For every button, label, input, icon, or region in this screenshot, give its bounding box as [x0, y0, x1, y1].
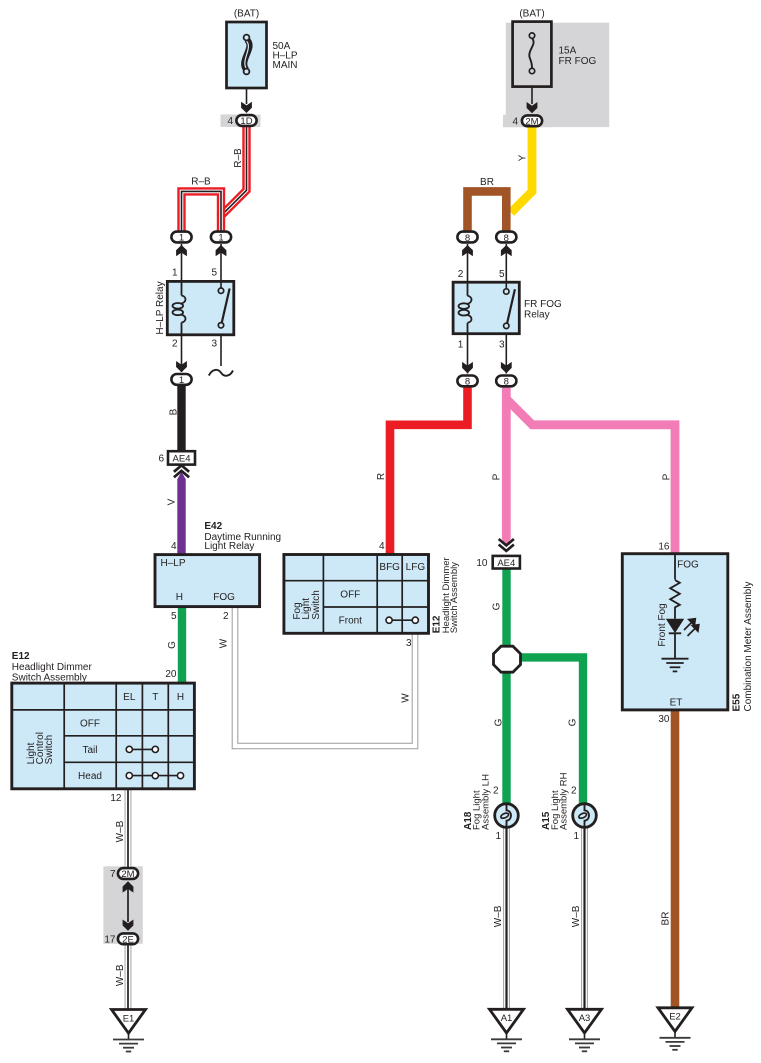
svg-text:12: 12 [110, 793, 122, 804]
svg-text:5: 5 [211, 268, 217, 279]
svg-text:3: 3 [499, 340, 505, 351]
svg-text:(BAT): (BAT) [234, 9, 259, 20]
svg-text:A3: A3 [579, 1013, 591, 1024]
svg-text:1: 1 [179, 375, 184, 386]
svg-text:G: G [491, 602, 502, 610]
svg-text:W–B: W–B [571, 905, 582, 927]
svg-text:H–LP: H–LP [161, 558, 186, 569]
svg-text:1: 1 [458, 340, 464, 351]
svg-text:Combination Meter Assembly: Combination Meter Assembly [743, 581, 754, 711]
svg-text:6: 6 [158, 453, 164, 464]
svg-text:BFG: BFG [379, 562, 400, 573]
svg-text:W: W [401, 693, 412, 703]
svg-text:3: 3 [211, 338, 217, 349]
svg-text:Assembly LH: Assembly LH [480, 774, 491, 830]
svg-text:8: 8 [465, 233, 470, 244]
svg-text:AE4: AE4 [173, 453, 191, 464]
svg-text:16: 16 [658, 542, 670, 553]
svg-text:EL: EL [123, 692, 136, 703]
svg-text:30: 30 [658, 714, 670, 725]
svg-text:FOG: FOG [213, 592, 235, 603]
svg-text:OFF: OFF [80, 719, 100, 730]
svg-text:4: 4 [227, 116, 233, 127]
svg-text:G: G [494, 718, 505, 726]
svg-text:Front Fog: Front Fog [657, 603, 668, 646]
svg-text:2: 2 [172, 338, 178, 349]
svg-text:ET: ET [670, 698, 683, 709]
svg-text:4: 4 [171, 541, 177, 552]
svg-text:Y: Y [518, 154, 529, 161]
svg-text:FR FOG: FR FOG [559, 56, 597, 67]
svg-text:AE4: AE4 [497, 558, 515, 569]
svg-text:R–B: R–B [233, 148, 244, 168]
svg-text:W–B: W–B [115, 820, 126, 842]
svg-text:1D: 1D [240, 116, 252, 127]
svg-text:1: 1 [179, 233, 184, 244]
svg-text:Assembly RH: Assembly RH [559, 772, 570, 830]
svg-text:4: 4 [379, 541, 385, 552]
svg-text:R–B: R–B [191, 177, 211, 188]
svg-text:Switch: Switch [44, 735, 55, 764]
svg-text:BR: BR [661, 912, 672, 926]
svg-text:5: 5 [499, 269, 505, 280]
svg-text:8: 8 [465, 377, 470, 388]
svg-text:2: 2 [571, 785, 577, 796]
svg-text:Relay: Relay [524, 309, 550, 320]
svg-text:2M: 2M [121, 869, 134, 880]
svg-text:E1: E1 [123, 1013, 135, 1024]
svg-text:Tail: Tail [82, 745, 97, 756]
svg-text:FOG: FOG [677, 560, 699, 571]
svg-text:Switch Assembly: Switch Assembly [12, 673, 87, 684]
svg-text:2: 2 [493, 785, 499, 796]
svg-text:E55: E55 [732, 693, 743, 711]
svg-text:17: 17 [104, 934, 116, 945]
svg-text:Switch: Switch [311, 590, 322, 619]
svg-text:T: T [152, 692, 158, 703]
svg-text:R: R [376, 473, 387, 480]
svg-text:3: 3 [406, 638, 412, 649]
svg-text:B: B [168, 408, 179, 415]
svg-text:10: 10 [476, 558, 488, 569]
svg-text:20: 20 [165, 669, 177, 680]
svg-text:H–LP Relay: H–LP Relay [155, 281, 166, 334]
svg-text:V: V [167, 498, 178, 505]
svg-text:E12: E12 [12, 651, 30, 662]
svg-text:E42: E42 [204, 521, 222, 532]
svg-text:Switch Assembly: Switch Assembly [449, 562, 460, 634]
svg-text:15A: 15A [559, 45, 577, 56]
svg-text:5: 5 [171, 611, 177, 622]
svg-text:A1: A1 [501, 1013, 513, 1024]
svg-text:MAIN: MAIN [273, 60, 298, 71]
svg-text:Head: Head [78, 771, 102, 782]
svg-text:W: W [219, 638, 230, 648]
svg-text:2E: 2E [122, 934, 134, 945]
svg-text:H: H [176, 592, 183, 603]
svg-text:8: 8 [504, 377, 509, 388]
svg-text:1: 1 [495, 831, 501, 842]
svg-text:W–B: W–B [115, 964, 126, 986]
svg-text:Front: Front [339, 616, 363, 627]
svg-text:G: G [167, 641, 178, 649]
svg-text:E2: E2 [669, 1012, 681, 1023]
svg-text:1: 1 [172, 268, 178, 279]
svg-text:4: 4 [512, 116, 518, 127]
svg-text:H: H [177, 692, 184, 703]
svg-text:G: G [567, 718, 578, 726]
svg-text:OFF: OFF [340, 589, 360, 600]
svg-text:LFG: LFG [406, 562, 426, 573]
svg-text:P: P [661, 473, 672, 480]
svg-text:1: 1 [218, 233, 223, 244]
svg-text:Light Relay: Light Relay [204, 541, 254, 552]
svg-text:Headlight Dimmer: Headlight Dimmer [12, 662, 93, 673]
svg-text:1: 1 [573, 831, 579, 842]
svg-text:2: 2 [223, 611, 229, 622]
svg-text:2: 2 [458, 269, 464, 280]
svg-text:7: 7 [110, 869, 116, 880]
svg-text:2M: 2M [525, 116, 538, 127]
svg-text:P: P [492, 473, 503, 480]
svg-text:8: 8 [504, 233, 509, 244]
svg-text:BR: BR [480, 177, 494, 188]
svg-text:W–B: W–B [493, 905, 504, 927]
svg-text:(BAT): (BAT) [519, 9, 544, 20]
